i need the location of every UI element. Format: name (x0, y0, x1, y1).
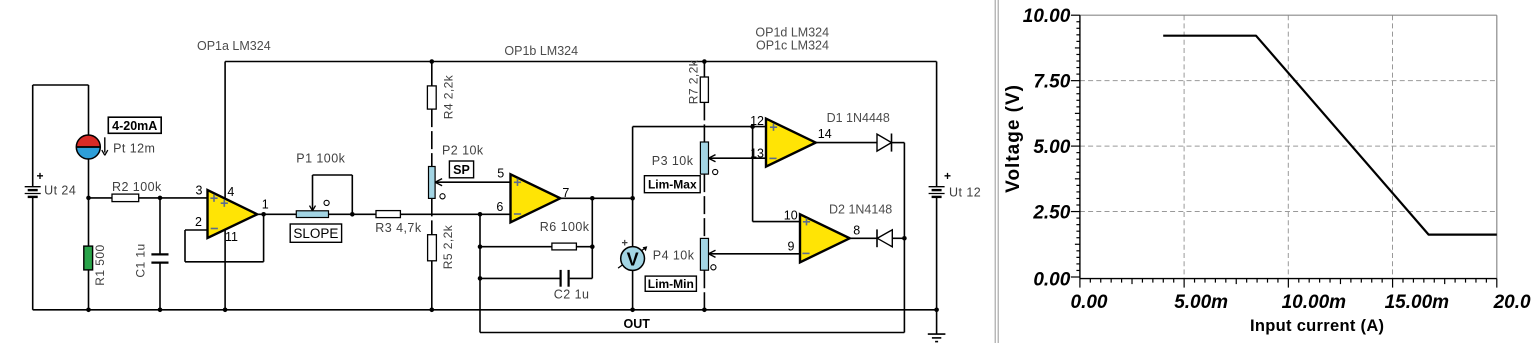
svg-text:7.50: 7.50 (1033, 72, 1070, 93)
svg-text:R3 4,7k: R3 4,7k (375, 221, 422, 235)
svg-text:R5 2,2k: R5 2,2k (441, 224, 455, 269)
svg-text:R2 100k: R2 100k (112, 180, 162, 194)
svg-text:4-20mA: 4-20mA (112, 119, 157, 133)
svg-text:3: 3 (195, 184, 202, 198)
svg-text:P2 10k: P2 10k (442, 144, 484, 158)
svg-text:12: 12 (750, 114, 764, 128)
svg-text:R7 2,2k: R7 2,2k (687, 59, 701, 104)
svg-text:Lim-Max: Lim-Max (648, 178, 697, 192)
svg-text:Ut 24: Ut 24 (44, 183, 76, 197)
svg-text:11: 11 (225, 230, 238, 244)
svg-text:R4 2,2k: R4 2,2k (442, 74, 456, 119)
svg-text:OP1c LM324: OP1c LM324 (756, 38, 829, 52)
svg-text:7: 7 (562, 186, 569, 200)
svg-text:8: 8 (853, 224, 860, 238)
svg-text:V: V (627, 250, 639, 270)
svg-text:10: 10 (784, 208, 798, 222)
svg-text:R6 100k: R6 100k (540, 220, 590, 234)
svg-text:Ut 12: Ut 12 (949, 186, 981, 200)
svg-text:15.00m: 15.00m (1385, 292, 1450, 313)
svg-text:4: 4 (227, 185, 234, 199)
svg-text:0.00: 0.00 (1033, 269, 1070, 290)
svg-text:14: 14 (818, 127, 832, 141)
svg-text:5.00m: 5.00m (1174, 292, 1228, 313)
svg-text:20.00: 20.00 (1493, 292, 1531, 313)
svg-text:OP1a LM324: OP1a LM324 (197, 39, 271, 53)
svg-text:R1 500: R1 500 (93, 244, 107, 285)
svg-text:1: 1 (262, 198, 269, 212)
svg-text:SP: SP (453, 163, 470, 177)
svg-text:P4 10k: P4 10k (653, 248, 695, 262)
svg-text:+: + (36, 169, 43, 183)
svg-text:6: 6 (496, 200, 503, 214)
svg-text:Lim-Min: Lim-Min (648, 277, 694, 291)
svg-text:P3 10k: P3 10k (652, 154, 694, 168)
svg-text:Pt 12m: Pt 12m (113, 141, 155, 155)
svg-text:OP1d LM324: OP1d LM324 (755, 26, 829, 40)
svg-text:OUT: OUT (624, 317, 651, 331)
svg-text:+: + (621, 237, 627, 249)
svg-text:10.00m: 10.00m (1282, 292, 1347, 313)
svg-text:OP1b LM324: OP1b LM324 (504, 44, 578, 58)
svg-text:SLOPE: SLOPE (293, 226, 338, 241)
svg-text:+: + (944, 169, 951, 183)
svg-text:2.50: 2.50 (1032, 202, 1070, 223)
svg-text:Voltage (V): Voltage (V) (1003, 84, 1024, 193)
svg-text:C2 1u: C2 1u (554, 287, 590, 301)
svg-text:9: 9 (788, 240, 795, 254)
svg-text:13: 13 (750, 147, 764, 161)
svg-text:D1 1N4448: D1 1N4448 (827, 111, 890, 125)
svg-text:5: 5 (497, 167, 504, 181)
svg-text:P1 100k: P1 100k (296, 152, 345, 166)
svg-text:2: 2 (195, 215, 202, 229)
svg-text:10.00: 10.00 (1023, 6, 1071, 27)
svg-text:0.00: 0.00 (1071, 292, 1108, 313)
svg-text:C1 1u: C1 1u (134, 243, 148, 277)
svg-text:D2 1N4148: D2 1N4148 (829, 203, 892, 217)
svg-text:Input current (A): Input current (A) (1250, 317, 1384, 335)
svg-text:5.00: 5.00 (1033, 137, 1070, 158)
